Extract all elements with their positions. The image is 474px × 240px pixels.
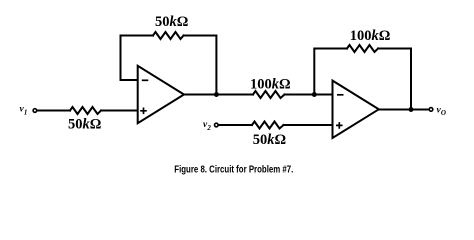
svg-text:1: 1 — [24, 108, 28, 116]
svg-text:O: O — [441, 109, 446, 117]
svg-text:Figure 8. Circuit for Problem: Figure 8. Circuit for Problem #7. — [174, 164, 293, 176]
svg-text:50kΩ: 50kΩ — [253, 132, 286, 148]
svg-text:100kΩ: 100kΩ — [250, 76, 291, 92]
svg-text:50kΩ: 50kΩ — [68, 117, 101, 133]
svg-text:2: 2 — [206, 124, 211, 132]
svg-text:100kΩ: 100kΩ — [350, 28, 391, 44]
svg-text:50kΩ: 50kΩ — [155, 14, 188, 30]
